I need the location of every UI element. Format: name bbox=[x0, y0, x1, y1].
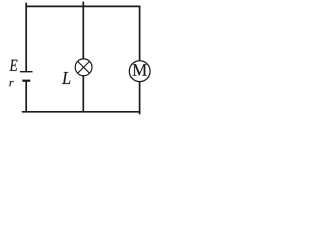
motor M circle bbox=[129, 61, 150, 82]
lamp L cross diagonal 1 bbox=[78, 61, 90, 73]
wire right vertical lower bbox=[139, 81, 141, 114]
wire middle vertical lower bbox=[82, 75, 84, 112]
lamp L circle bbox=[75, 59, 92, 76]
label L bbox=[62, 72, 71, 84]
label E bbox=[9, 60, 17, 71]
motor M letter bbox=[133, 64, 147, 76]
wire left vertical lower bbox=[25, 82, 27, 112]
wire right vertical upper bbox=[139, 6, 141, 61]
wire top horizontal bbox=[25, 5, 140, 7]
wire left vertical upper (node junction tick) bbox=[25, 3, 27, 72]
wire bottom horizontal bbox=[22, 111, 141, 113]
wire middle vertical upper bbox=[82, 2, 84, 60]
battery E,r top plate (long thin) bbox=[20, 71, 33, 73]
lamp L cross diagonal 2 bbox=[78, 61, 90, 73]
label r bbox=[9, 81, 13, 86]
battery E,r bottom plate (short thick) bbox=[22, 80, 30, 82]
